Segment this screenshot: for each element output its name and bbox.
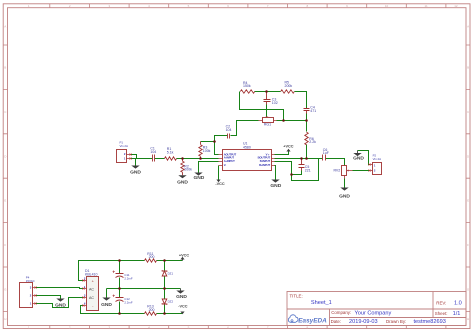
svg-text:H: H	[4, 317, 6, 321]
svg-text:4580: 4580	[243, 145, 251, 149]
power flag +VCC psu	[182, 260, 184, 261]
wire R1 to A-INPUT node	[177, 158, 219, 160]
wire zener column	[164, 261, 166, 314]
svg-text:Company:: Company:	[331, 310, 351, 315]
wire B-INPUT to node B	[275, 162, 292, 175]
wire B+INPUT to gnd	[275, 166, 276, 180]
trimmer RG1	[263, 118, 274, 123]
TITLEBLOCK	[287, 292, 466, 326]
svg-text:DZ2: DZ2	[168, 300, 174, 304]
wire node A down to AOUTPUT	[215, 142, 219, 155]
svg-text:-VCC: -VCC	[215, 182, 225, 186]
svg-text:-VCC: -VCC	[178, 305, 188, 309]
connector P2	[373, 163, 382, 175]
wire P1 pin1 to gnd stem	[131, 159, 136, 166]
junction C4-R6	[305, 119, 308, 122]
svg-text:Vin 2A: Vin 2A	[373, 157, 382, 161]
wire A+INPUT to gnd	[199, 162, 219, 173]
ground under RV2	[340, 188, 348, 191]
capacitor C12	[116, 298, 124, 302]
junction BOUT-C5	[300, 157, 303, 160]
P4 pin3 connection	[34, 286, 36, 288]
capacitor C5	[299, 159, 305, 171]
wire V+ to +VCC	[275, 152, 289, 155]
svg-text:RV2: RV2	[333, 169, 340, 173]
junction at R2 top	[181, 157, 184, 160]
wire C12 to bottom rail	[119, 302, 121, 314]
svg-text:1/1: 1/1	[453, 311, 461, 317]
D1 pin1 connection	[82, 287, 84, 289]
svg-text:Date:: Date:	[331, 319, 342, 324]
svg-text:GND: GND	[177, 179, 188, 185]
POWER SUPPLY CIRCUIT	[20, 252, 190, 315]
wire P1 pin2 to C1	[131, 155, 153, 159]
ground P2 pin1	[357, 151, 359, 154]
svg-text:testme82693: testme82693	[414, 319, 446, 325]
svg-text:A: A	[4, 25, 6, 29]
wire C4 bottom to node	[306, 114, 308, 121]
wire C3 to RG1 wiper	[266, 105, 268, 117]
svg-text:15VAC: 15VAC	[26, 279, 35, 283]
resistor R5	[281, 90, 295, 93]
MAIN AMP CIRCUIT	[117, 81, 382, 200]
bridge rectifier D1	[87, 277, 99, 311]
D1 pin2 connection	[82, 279, 84, 281]
svg-text:H: H	[467, 317, 469, 321]
svg-text:GND: GND	[55, 302, 66, 308]
wire P2 pin1 to gnd	[358, 151, 370, 165]
wire C11 column top	[119, 261, 121, 274]
ground mid rail right	[180, 289, 182, 291]
svg-text:RG1: RG1	[264, 123, 271, 127]
node B junction	[290, 173, 293, 176]
wire D1 plus to top rail	[79, 261, 145, 281]
resistor R3	[200, 142, 202, 159]
svg-text:200k: 200k	[285, 84, 293, 88]
wire C2 to RG1 left	[231, 121, 259, 136]
svg-text:Drawn By:: Drawn By:	[386, 319, 406, 324]
svg-text:Your Company: Your Company	[355, 310, 392, 316]
svg-text:102: 102	[272, 101, 278, 105]
svg-text:150k: 150k	[243, 84, 251, 88]
wire bottom rail right of R13	[157, 313, 183, 315]
LOGO	[288, 315, 327, 325]
svg-text:GND: GND	[130, 169, 141, 175]
wire C12 column	[119, 289, 121, 298]
svg-text:104: 104	[150, 150, 156, 154]
capacitor C2	[228, 134, 230, 139]
ground P4 pin2	[56, 299, 64, 302]
ground B+INPUT	[271, 180, 279, 183]
resistor R4	[240, 90, 254, 93]
wire top rail right of R11	[157, 260, 183, 262]
svg-text:2.2k: 2.2k	[309, 140, 316, 144]
wire RG1 right to C4 node	[277, 120, 307, 122]
junction R4-R5-C3	[265, 90, 268, 93]
svg-text:GND: GND	[270, 183, 281, 189]
capacitor C6	[323, 155, 326, 161]
svg-text:221: 221	[305, 169, 311, 173]
wire RV2 bottom to gnd	[344, 179, 346, 188]
svg-text:B-INPUT: B-INPUT	[260, 159, 271, 163]
svg-text:10: 10	[385, 4, 389, 8]
P2 pin1 connection	[368, 163, 370, 165]
svg-text:471: 471	[310, 109, 316, 113]
svg-text:EasyEDA: EasyEDA	[298, 317, 327, 324]
op-amp U1	[223, 150, 272, 171]
junction at R3 bottom	[199, 157, 202, 160]
svg-text:200: 200	[149, 255, 155, 259]
resistor R13	[145, 312, 157, 315]
wire R3 top to node A	[201, 141, 215, 143]
junction mid rail DZ	[163, 287, 166, 290]
ground under P1	[131, 166, 139, 169]
resistor R11	[145, 259, 157, 262]
wire gnd stem mid left	[106, 289, 108, 298]
wire R4 left branch	[240, 92, 284, 121]
svg-text:200: 200	[149, 308, 155, 312]
power flag +VCC at U1	[286, 149, 290, 152]
junction bottom rail C12	[118, 312, 121, 315]
node A junction	[213, 140, 216, 143]
wire C11 to mid rail	[119, 278, 121, 289]
wire R4 to R5 junction rail	[255, 91, 281, 93]
ground A+INPUT	[194, 173, 202, 176]
P4 pin1 connection	[34, 302, 36, 304]
svg-text:A: A	[467, 25, 469, 29]
svg-text:GND: GND	[176, 294, 187, 300]
wire R6 bottom to BOUT rail	[306, 145, 308, 159]
ground mid rail left	[102, 298, 110, 301]
zener diode DZ2	[162, 299, 167, 305]
zener diode DZ1	[162, 270, 167, 276]
wire node B loop around	[292, 159, 319, 181]
P1 pin2 connection	[129, 153, 131, 155]
D1 pin4 connection	[82, 304, 84, 306]
svg-text:200k: 200k	[184, 168, 192, 172]
wire P4 pin3 to D1 AC1	[36, 288, 84, 289]
P1 pin1 connection	[129, 157, 131, 159]
svg-text:GND: GND	[101, 302, 112, 308]
svg-text:+VCC: +VCC	[283, 145, 293, 149]
connector P4	[20, 283, 33, 308]
svg-text:E: E	[467, 199, 469, 203]
svg-text:GND: GND	[339, 193, 350, 199]
svg-text:AC: AC	[89, 296, 94, 300]
junction top rail C11	[118, 259, 121, 262]
svg-text:1.0: 1.0	[454, 301, 462, 307]
svg-text:5.1k: 5.1k	[167, 150, 174, 154]
power flag -VCC at U1	[216, 180, 220, 183]
svg-text:BOUTPUT: BOUTPUT	[258, 156, 271, 160]
wire V- to -VCC	[218, 166, 220, 180]
junction BOUT-R6	[305, 157, 308, 160]
svg-text:DZ1: DZ1	[168, 271, 174, 275]
wire C6 to RV2 top	[326, 159, 345, 166]
svg-text:AC: AC	[89, 287, 94, 291]
wire R5 right to C4 top	[295, 92, 307, 109]
svg-text:E: E	[4, 199, 6, 203]
svg-text:2.2mF: 2.2mF	[124, 276, 132, 280]
svg-text:B: B	[4, 66, 6, 70]
junction bottom rail DZ2	[163, 312, 166, 315]
svg-text:2019-09-03: 2019-09-03	[349, 319, 378, 325]
resistor R6	[305, 132, 308, 145]
svg-text:REV:: REV:	[436, 300, 446, 305]
wire mid rail	[107, 288, 181, 290]
svg-text:A+INPUT: A+INPUT	[224, 159, 235, 163]
svg-text:Sheet_1: Sheet_1	[311, 300, 332, 306]
wire D1 minus to bottom rail	[81, 306, 145, 314]
svg-text:GND: GND	[193, 175, 204, 181]
capacitor C11	[116, 274, 124, 278]
svg-text:100k: 100k	[203, 149, 211, 153]
connector P1	[117, 150, 127, 163]
svg-text:B: B	[467, 66, 469, 70]
wire P4 pin1 to D1 AC2	[36, 298, 84, 308]
svg-text:Sheet:: Sheet:	[435, 311, 448, 316]
junction top rail DZ1	[163, 259, 166, 262]
svg-text:F: F	[4, 243, 6, 247]
P2 pin2 connection	[368, 169, 370, 171]
wire RV2 wiper to P2 pin2	[353, 170, 370, 172]
resistor R1	[165, 157, 177, 160]
P4 pin2 connection	[34, 294, 36, 296]
capacitor C3	[264, 92, 271, 105]
wire P4 pin2 to gnd	[36, 296, 61, 299]
svg-text:V-: V-	[224, 163, 227, 167]
svg-text:A-INPUT: A-INPUT	[224, 156, 235, 160]
junction R4 branch to RG1	[282, 119, 285, 122]
power flag -VCC psu	[182, 312, 184, 314]
D1 pin3 connection	[82, 296, 84, 298]
svg-text:F: F	[467, 243, 469, 247]
wire node A up to C2	[215, 136, 228, 142]
wire C5 bottom link	[292, 171, 302, 175]
junction mid rail C12	[118, 287, 121, 290]
svg-text:11: 11	[425, 4, 428, 8]
svg-text:TITLE:: TITLE:	[290, 294, 303, 299]
ground under R2	[178, 175, 186, 178]
capacitor C1	[153, 155, 155, 162]
svg-text:KBL410: KBL410	[85, 273, 98, 277]
potentiometer RV2	[342, 166, 347, 176]
svg-text:2.2mF: 2.2mF	[124, 300, 132, 304]
svg-text:104: 104	[226, 128, 232, 132]
wire C1 to R1	[155, 158, 165, 160]
svg-text:Vin 2A: Vin 2A	[120, 144, 129, 148]
wire BOUTPUT to C6	[275, 158, 323, 160]
svg-text:+VCC: +VCC	[179, 253, 189, 257]
wire node down to R6	[306, 121, 308, 132]
svg-text:12: 12	[454, 4, 458, 8]
capacitor C4	[304, 109, 310, 114]
svg-text:B+INPUT: B+INPUT	[259, 163, 270, 167]
svg-text:1uF: 1uF	[323, 151, 329, 155]
svg-text:GND: GND	[353, 156, 364, 162]
resistor R2	[182, 159, 184, 176]
